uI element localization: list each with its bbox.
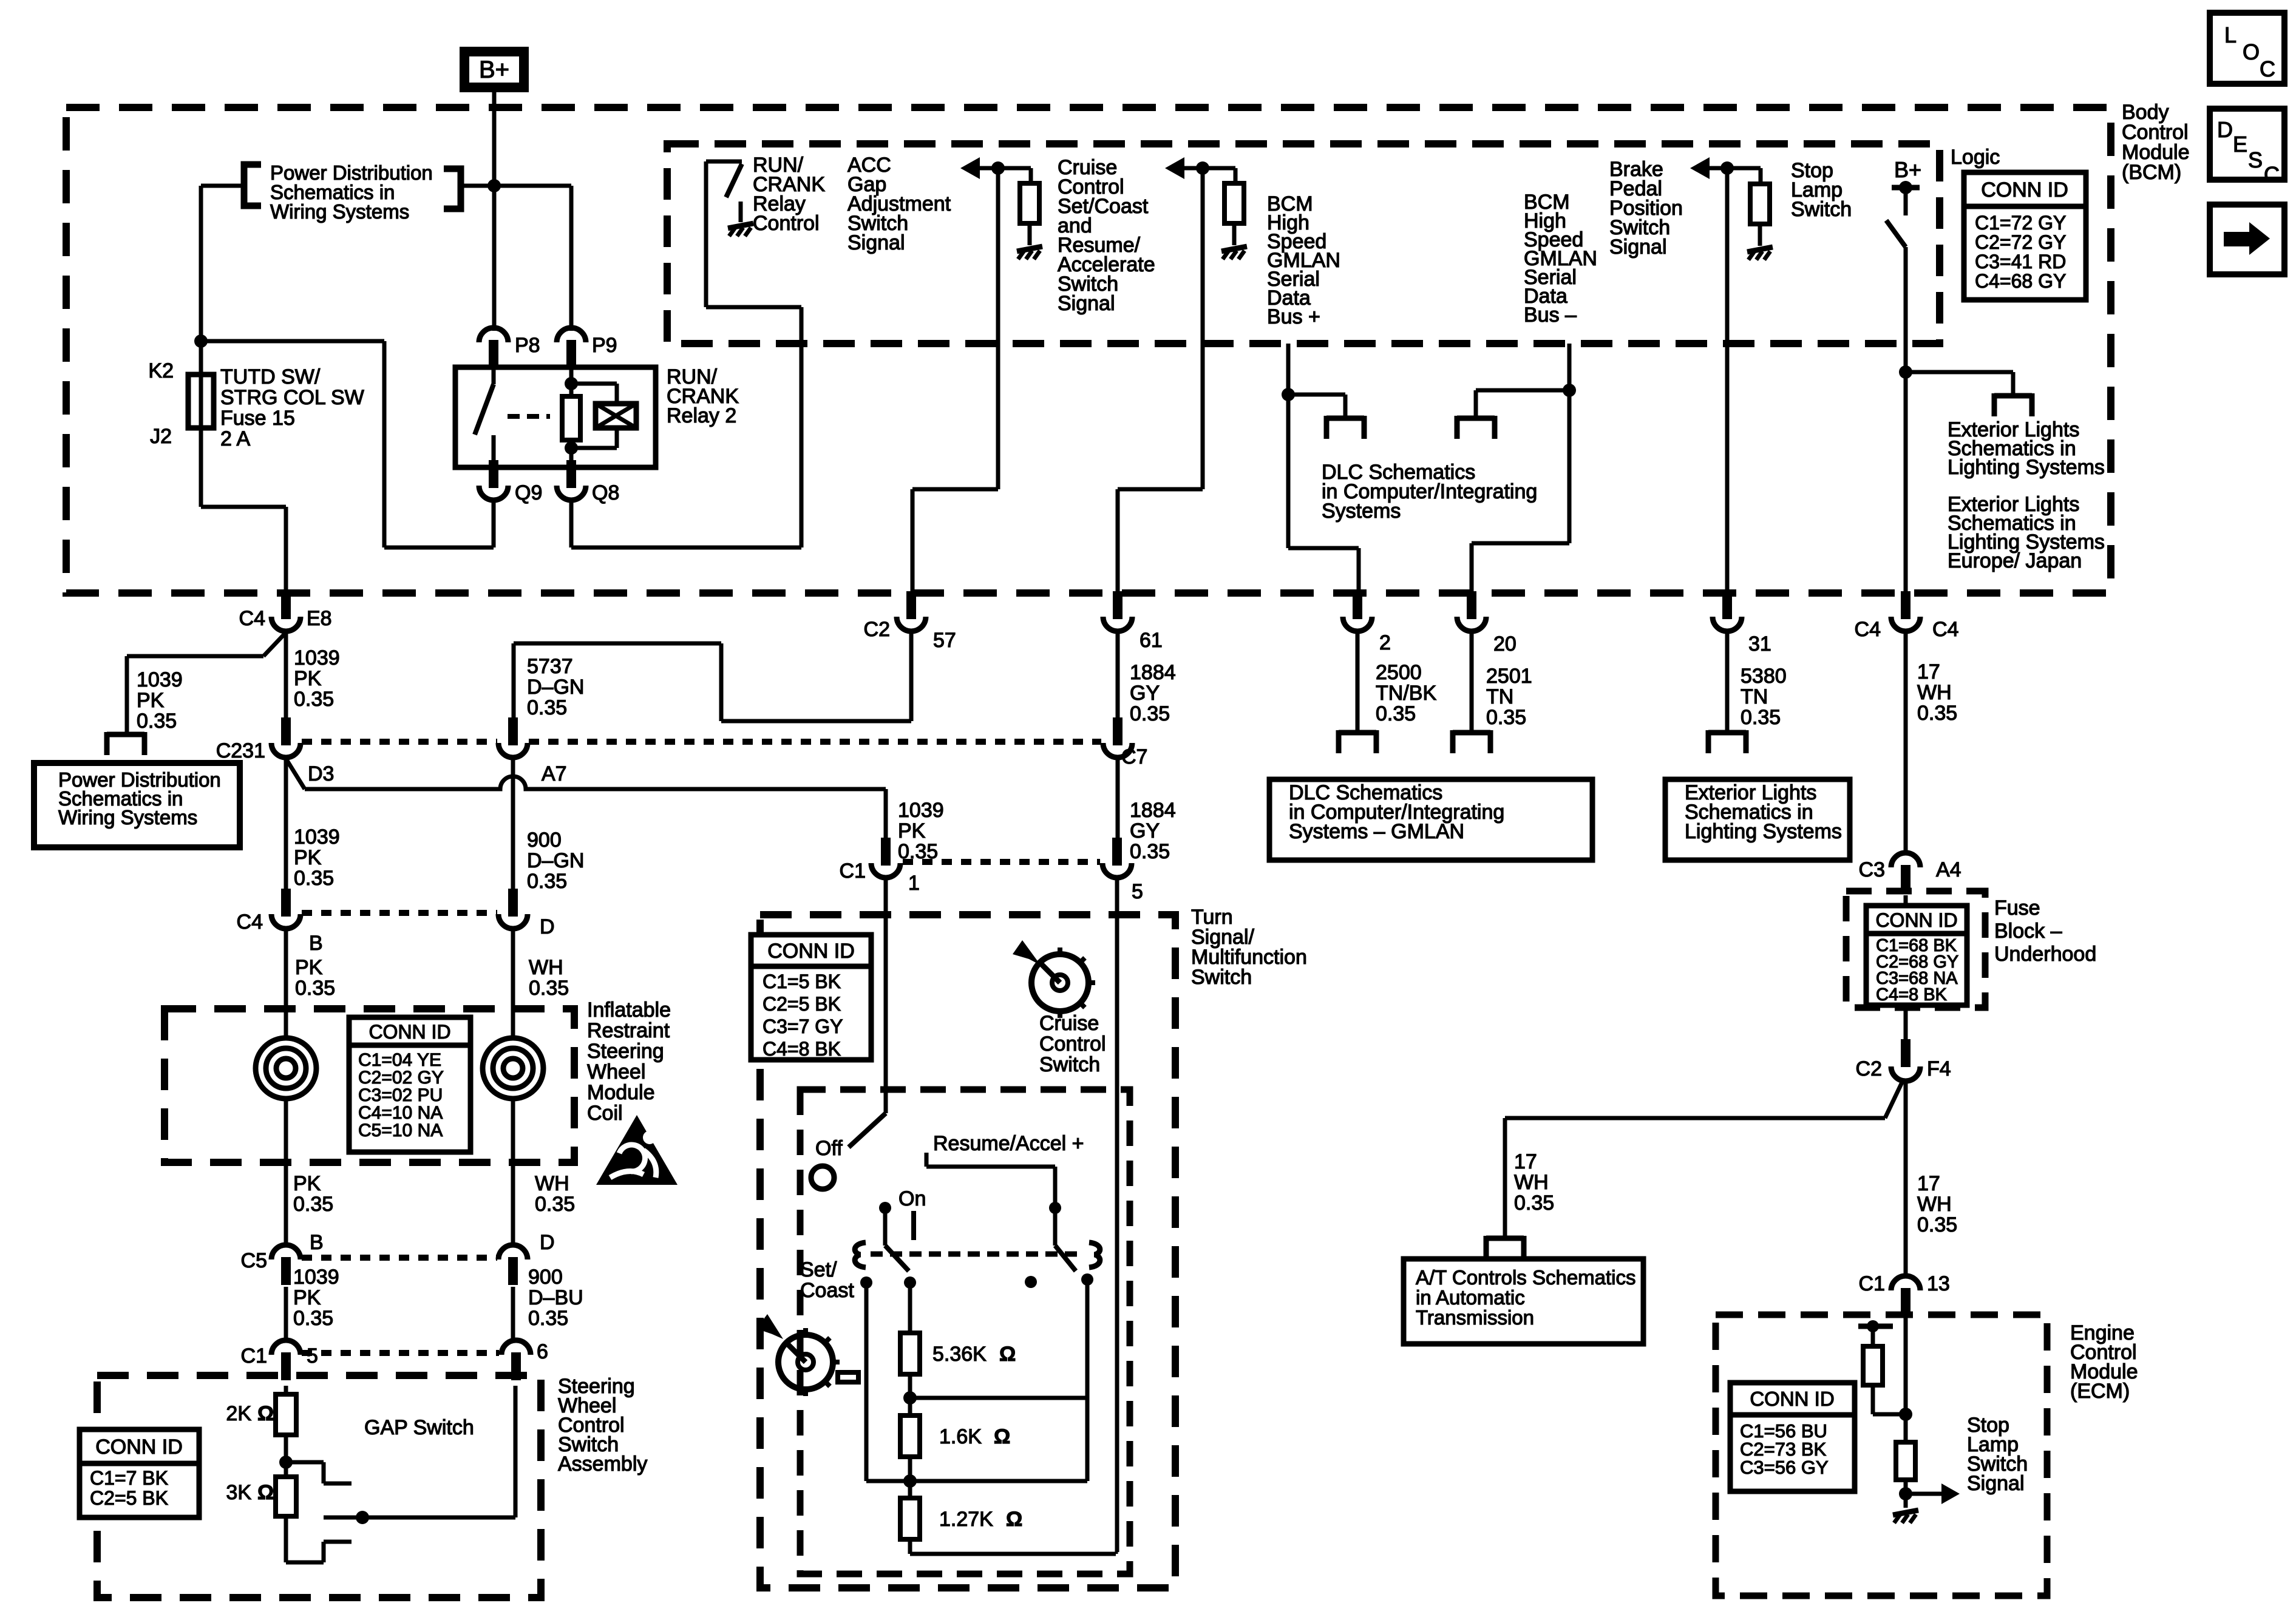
svg-text:C7: C7 xyxy=(1121,745,1147,768)
svg-text:PK: PK xyxy=(295,956,323,979)
svg-text:17: 17 xyxy=(1514,1150,1537,1173)
svg-text:17: 17 xyxy=(1917,1172,1940,1195)
svg-text:D: D xyxy=(540,1231,555,1254)
svg-text:5737: 5737 xyxy=(527,655,573,678)
svg-text:D: D xyxy=(2217,117,2233,142)
svg-text:C2=5 BK: C2=5 BK xyxy=(763,993,841,1015)
svg-text:0.35: 0.35 xyxy=(1376,702,1416,725)
svg-text:17: 17 xyxy=(1917,660,1940,683)
svg-text:Resume/Accel +: Resume/Accel + xyxy=(933,1132,1084,1155)
svg-text:L: L xyxy=(2224,22,2237,47)
svg-text:1884: 1884 xyxy=(1130,799,1176,822)
svg-text:Set/: Set/ xyxy=(800,1258,837,1281)
svg-text:0.35: 0.35 xyxy=(535,1193,575,1216)
svg-text:TN: TN xyxy=(1486,685,1513,708)
svg-text:O: O xyxy=(2243,39,2260,64)
svg-text:GY: GY xyxy=(1130,682,1160,705)
svg-text:B+: B+ xyxy=(1894,157,1921,182)
svg-text:CONN ID: CONN ID xyxy=(1750,1388,1834,1410)
svg-text:Switch: Switch xyxy=(1039,1053,1100,1076)
svg-text:C2: C2 xyxy=(864,618,890,641)
svg-text:A/T Controls Schematics: A/T Controls Schematics xyxy=(1416,1266,1636,1289)
svg-text:C4=8 BK: C4=8 BK xyxy=(1876,985,1948,1005)
svg-text:C4: C4 xyxy=(239,607,265,630)
svg-text:5.36K: 5.36K xyxy=(932,1343,987,1366)
svg-text:1039: 1039 xyxy=(294,825,340,849)
svg-text:P9: P9 xyxy=(592,334,617,357)
svg-text:D3: D3 xyxy=(308,762,334,785)
svg-text:C2=5 BK: C2=5 BK xyxy=(90,1487,168,1509)
svg-text:Restraint: Restraint xyxy=(587,1019,670,1042)
svg-text:0.35: 0.35 xyxy=(1917,702,1957,725)
svg-text:F4: F4 xyxy=(1927,1057,1951,1080)
svg-text:Q9: Q9 xyxy=(515,481,542,504)
svg-text:0.35: 0.35 xyxy=(1130,840,1170,863)
svg-text:3K: 3K xyxy=(226,1481,251,1504)
svg-text:CONN ID: CONN ID xyxy=(1875,909,1957,931)
svg-text:On: On xyxy=(898,1187,926,1210)
svg-text:PK: PK xyxy=(293,1172,321,1195)
svg-text:Signal: Signal xyxy=(1609,236,1667,259)
svg-text:B+: B+ xyxy=(479,56,509,83)
svg-text:Systems – GMLAN: Systems – GMLAN xyxy=(1289,820,1464,843)
svg-text:900: 900 xyxy=(527,829,562,852)
svg-text:C3=41 RD: C3=41 RD xyxy=(1975,251,2066,273)
svg-text:Coil: Coil xyxy=(587,1102,623,1125)
svg-text:Control: Control xyxy=(753,212,820,235)
svg-text:C1=72 GY: C1=72 GY xyxy=(1975,212,2066,234)
svg-text:K2: K2 xyxy=(148,359,174,382)
svg-text:Ω: Ω xyxy=(257,1481,274,1504)
svg-text:2: 2 xyxy=(1379,631,1391,654)
svg-text:Ω: Ω xyxy=(999,1343,1016,1366)
svg-text:C231: C231 xyxy=(216,739,265,762)
svg-text:1039: 1039 xyxy=(293,1266,339,1289)
svg-text:Lighting Systems: Lighting Systems xyxy=(1948,456,2105,479)
svg-text:CONN ID: CONN ID xyxy=(369,1021,450,1043)
svg-text:0.35: 0.35 xyxy=(527,870,567,893)
svg-text:1.27K: 1.27K xyxy=(939,1508,993,1531)
svg-text:Systems: Systems xyxy=(1322,500,1401,523)
svg-text:Control: Control xyxy=(1039,1032,1106,1056)
svg-text:C1=7 BK: C1=7 BK xyxy=(90,1467,168,1489)
svg-text:0.35: 0.35 xyxy=(528,1307,568,1330)
svg-text:Block –: Block – xyxy=(1994,920,2062,943)
svg-text:PK: PK xyxy=(293,1286,321,1309)
svg-text:GY: GY xyxy=(1130,819,1160,842)
svg-text:C3: C3 xyxy=(1859,858,1885,881)
svg-text:Wheel: Wheel xyxy=(587,1060,645,1083)
svg-text:WH: WH xyxy=(1917,681,1952,704)
svg-text:Off: Off xyxy=(815,1137,843,1160)
svg-text:Module: Module xyxy=(587,1081,655,1104)
svg-text:0.35: 0.35 xyxy=(294,867,334,890)
svg-text:2501: 2501 xyxy=(1486,665,1532,688)
svg-text:2500: 2500 xyxy=(1376,661,1422,684)
svg-text:900: 900 xyxy=(528,1266,563,1289)
svg-text:C1=5 BK: C1=5 BK xyxy=(763,971,841,992)
svg-text:E8: E8 xyxy=(307,607,332,630)
svg-text:TN/BK: TN/BK xyxy=(1376,682,1436,705)
svg-text:1039: 1039 xyxy=(898,799,944,822)
svg-text:CONN ID: CONN ID xyxy=(1981,178,2068,202)
svg-text:C3=7 GY: C3=7 GY xyxy=(763,1015,843,1037)
svg-text:TUTD SW/: TUTD SW/ xyxy=(220,365,321,388)
svg-text:in Automatic: in Automatic xyxy=(1416,1286,1525,1309)
svg-text:0.35: 0.35 xyxy=(295,977,335,1000)
svg-text:C1: C1 xyxy=(1859,1272,1885,1295)
svg-text:C1: C1 xyxy=(241,1344,267,1368)
svg-text:5380: 5380 xyxy=(1741,665,1787,688)
svg-text:Switch: Switch xyxy=(1191,966,1252,989)
svg-text:0.35: 0.35 xyxy=(293,1307,333,1330)
svg-text:C5=10 NA: C5=10 NA xyxy=(358,1120,443,1141)
svg-text:1039: 1039 xyxy=(294,646,340,670)
svg-text:D–GN: D–GN xyxy=(527,849,584,872)
svg-text:B: B xyxy=(310,1231,324,1254)
svg-text:Relay 2: Relay 2 xyxy=(667,404,736,427)
svg-text:0.35: 0.35 xyxy=(293,1193,333,1216)
svg-text:Bus –: Bus – xyxy=(1524,303,1577,327)
svg-text:CONN ID: CONN ID xyxy=(767,940,855,963)
svg-text:31: 31 xyxy=(1748,632,1771,656)
svg-text:A7: A7 xyxy=(542,762,567,785)
svg-text:GAP Switch: GAP Switch xyxy=(364,1416,474,1439)
svg-text:Ω: Ω xyxy=(994,1425,1010,1448)
svg-text:Inflatable: Inflatable xyxy=(587,998,671,1022)
svg-text:WH: WH xyxy=(1514,1171,1549,1194)
svg-text:0.35: 0.35 xyxy=(1130,702,1170,725)
svg-text:20: 20 xyxy=(1493,632,1517,656)
svg-text:P8: P8 xyxy=(515,334,540,357)
svg-text:Fuse 15: Fuse 15 xyxy=(220,407,295,430)
svg-text:C2=72 GY: C2=72 GY xyxy=(1975,231,2066,253)
svg-text:S: S xyxy=(2248,147,2263,172)
svg-text:C2: C2 xyxy=(1856,1057,1882,1080)
svg-text:B: B xyxy=(309,932,323,955)
svg-text:6: 6 xyxy=(537,1340,548,1363)
svg-text:Logic: Logic xyxy=(1951,146,2000,169)
svg-text:PK: PK xyxy=(898,819,926,842)
svg-text:0.35: 0.35 xyxy=(529,977,569,1000)
svg-text:CONN ID: CONN ID xyxy=(95,1436,183,1459)
svg-text:C3=56 GY: C3=56 GY xyxy=(1740,1457,1829,1478)
svg-text:C1: C1 xyxy=(840,859,866,883)
svg-text:2 A: 2 A xyxy=(220,427,250,450)
svg-text:61: 61 xyxy=(1140,629,1163,652)
svg-text:D–BU: D–BU xyxy=(528,1286,583,1309)
svg-text:A4: A4 xyxy=(1936,858,1961,881)
svg-text:0.35: 0.35 xyxy=(1917,1213,1957,1236)
svg-text:0.35: 0.35 xyxy=(527,696,567,719)
svg-text:Bus +: Bus + xyxy=(1267,305,1320,328)
svg-text:1: 1 xyxy=(908,872,920,895)
svg-text:Cruise: Cruise xyxy=(1039,1012,1099,1035)
svg-text:Europe/ Japan: Europe/ Japan xyxy=(1948,549,2082,572)
svg-text:0.35: 0.35 xyxy=(1741,706,1781,729)
svg-text:Signal: Signal xyxy=(847,231,905,254)
svg-text:C4: C4 xyxy=(1855,618,1881,641)
svg-text:0.35: 0.35 xyxy=(1514,1192,1554,1215)
svg-text:WH: WH xyxy=(1917,1193,1952,1216)
svg-text:0.35: 0.35 xyxy=(294,688,334,711)
svg-text:J2: J2 xyxy=(150,425,172,448)
svg-text:Wiring Systems: Wiring Systems xyxy=(270,200,409,223)
svg-text:C: C xyxy=(2260,56,2275,81)
svg-text:D: D xyxy=(540,915,555,938)
svg-text:TN: TN xyxy=(1741,685,1768,708)
svg-text:Assembly: Assembly xyxy=(558,1453,647,1476)
svg-text:Q8: Q8 xyxy=(592,481,619,504)
svg-text:WH: WH xyxy=(535,1172,569,1195)
svg-text:C: C xyxy=(2264,162,2280,187)
svg-text:Lighting Systems: Lighting Systems xyxy=(1685,820,1842,843)
svg-text:5: 5 xyxy=(1132,880,1143,903)
svg-text:2K: 2K xyxy=(226,1402,251,1425)
svg-text:0.35: 0.35 xyxy=(1486,706,1526,729)
svg-text:57: 57 xyxy=(933,629,956,652)
svg-text:E: E xyxy=(2233,132,2247,157)
svg-text:Fuse: Fuse xyxy=(1994,897,2040,920)
svg-text:C4=8 BK: C4=8 BK xyxy=(763,1038,841,1060)
svg-text:Transmission: Transmission xyxy=(1416,1306,1534,1329)
svg-text:(ECM): (ECM) xyxy=(2070,1380,2130,1403)
svg-text:0.35: 0.35 xyxy=(137,710,177,733)
svg-text:WH: WH xyxy=(529,956,563,979)
svg-text:D–GN: D–GN xyxy=(527,676,584,699)
svg-text:Switch: Switch xyxy=(1791,198,1852,221)
svg-text:Underhood: Underhood xyxy=(1994,943,2096,966)
svg-text:PK: PK xyxy=(137,689,165,712)
svg-text:Signal: Signal xyxy=(1967,1472,2025,1495)
svg-text:Ω: Ω xyxy=(1006,1508,1022,1531)
svg-text:C4: C4 xyxy=(237,910,263,934)
svg-text:1.6K: 1.6K xyxy=(939,1425,982,1448)
svg-text:Wiring Systems: Wiring Systems xyxy=(58,806,197,829)
svg-text:PK: PK xyxy=(294,846,322,869)
svg-text:PK: PK xyxy=(294,667,322,690)
svg-text:13: 13 xyxy=(1927,1272,1950,1295)
svg-text:Steering: Steering xyxy=(587,1040,664,1063)
svg-text:Signal: Signal xyxy=(1058,292,1115,315)
svg-text:1884: 1884 xyxy=(1130,661,1176,684)
svg-text:(BCM): (BCM) xyxy=(2122,161,2181,184)
svg-text:1039: 1039 xyxy=(137,668,183,691)
svg-text:Ω: Ω xyxy=(257,1402,274,1425)
svg-text:C5: C5 xyxy=(241,1249,267,1272)
svg-text:C4: C4 xyxy=(1932,618,1958,641)
svg-text:Coast: Coast xyxy=(800,1279,854,1302)
svg-text:C4=68 GY: C4=68 GY xyxy=(1975,270,2066,292)
svg-text:STRG COL SW: STRG COL SW xyxy=(220,386,364,409)
